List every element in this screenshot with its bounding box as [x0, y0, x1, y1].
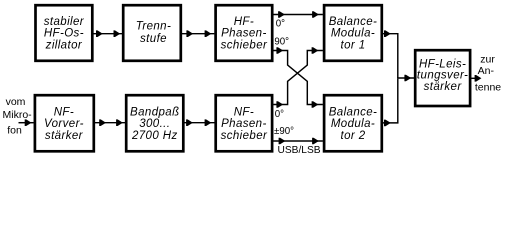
- wire buffer to HF phase shifter: [182, 33, 214, 35]
- box NF phase shifter: [216, 95, 272, 151]
- svg-text:Balance-: Balance-: [329, 106, 378, 118]
- wire bandpass to NF phase shifter: [185, 122, 215, 124]
- svg-text:0°: 0°: [275, 109, 284, 120]
- arrowhead: [312, 101, 319, 108]
- svg-text:Modula-: Modula-: [331, 118, 375, 130]
- arrowhead: [99, 119, 106, 126]
- wire modulator 1 output: [383, 34, 398, 78]
- svg-text:zur: zur: [480, 54, 495, 66]
- arrowhead: [312, 138, 319, 145]
- arrowhead: [186, 119, 193, 126]
- svg-text:Balance-: Balance-: [329, 16, 378, 28]
- label vom Mikrofon: [3, 96, 33, 137]
- arrowhead: [278, 11, 285, 18]
- arrowhead: [25, 119, 32, 126]
- label bandpass filter: [130, 106, 179, 141]
- svg-text:fon: fon: [7, 125, 22, 137]
- arrowhead: [114, 30, 121, 37]
- wire +-90deg NF output: [273, 140, 323, 142]
- wire 0deg NF output crossing up: [273, 51, 323, 105]
- label balance modulator 1: [329, 16, 378, 52]
- svg-text:HF-Os-: HF-Os-: [44, 28, 84, 40]
- svg-text:Phasen-: Phasen-: [221, 118, 267, 130]
- svg-text:Trenn-: Trenn-: [136, 20, 171, 32]
- box HF power amplifier: [415, 50, 470, 106]
- arrowhead: [96, 30, 103, 37]
- svg-text:2700 Hz: 2700 Hz: [131, 130, 178, 142]
- arrowhead: [276, 101, 283, 108]
- arrowhead: [279, 138, 286, 145]
- label HF power amplifier: [417, 58, 468, 93]
- wire junction to power amplifier: [397, 77, 414, 79]
- arrowhead: [475, 75, 482, 82]
- arrowhead: [312, 47, 319, 54]
- label balance modulator 2: [329, 106, 378, 141]
- box oscillator: [36, 5, 93, 61]
- box HF phase shifter: [216, 5, 273, 61]
- svg-text:Modula-: Modula-: [331, 28, 375, 40]
- svg-text:90°: 90°: [274, 37, 289, 48]
- label NF preamplifier: [44, 106, 84, 141]
- box buffer stage: [123, 5, 181, 61]
- svg-text:300...: 300...: [139, 118, 170, 130]
- svg-text:HF-: HF-: [234, 16, 254, 28]
- wire preamp to bandpass: [94, 122, 125, 124]
- svg-text:tenne: tenne: [475, 82, 501, 94]
- arrowhead: [276, 47, 283, 54]
- svg-text:An-: An-: [478, 65, 495, 77]
- wire 90deg HF output crossing down: [273, 51, 323, 105]
- wire microphone input: [19, 122, 34, 124]
- wire 0deg HF output: [273, 14, 323, 16]
- svg-text:tungsver-: tungsver-: [417, 70, 468, 82]
- svg-text:vom: vom: [6, 96, 26, 108]
- arrowhead: [205, 119, 212, 126]
- box NF preamplifier: [35, 95, 94, 151]
- svg-text:0°: 0°: [276, 19, 285, 30]
- arrowhead: [384, 30, 391, 37]
- arrowhead: [116, 119, 123, 126]
- svg-text:Mikro-: Mikro-: [3, 109, 33, 121]
- svg-text:±90°: ±90°: [274, 126, 294, 137]
- box balance modulator 1: [324, 5, 382, 61]
- wire oscillator to buffer: [94, 33, 123, 35]
- box bandpass filter: [126, 95, 183, 151]
- arrowhead: [404, 75, 411, 82]
- svg-text:stärker: stärker: [424, 81, 463, 93]
- arrowhead: [312, 11, 319, 18]
- wire modulator 2 output: [383, 79, 398, 123]
- svg-text:stabiler: stabiler: [44, 16, 85, 28]
- box balance modulator 2: [324, 95, 382, 151]
- label buffer stage: [136, 20, 171, 45]
- wire antenna output: [471, 77, 477, 79]
- svg-text:zillator: zillator: [45, 40, 83, 52]
- svg-text:NF-: NF-: [54, 106, 74, 118]
- arrowhead: [384, 120, 391, 127]
- label zur Antenne: [475, 54, 501, 94]
- svg-text:schieber: schieber: [221, 40, 268, 52]
- svg-text:stärker: stärker: [45, 130, 84, 142]
- label NF phase shifter: [221, 106, 268, 141]
- svg-text:NF-: NF-: [234, 106, 254, 118]
- svg-text:Bandpaß: Bandpaß: [130, 106, 179, 118]
- svg-text:tor 2: tor 2: [340, 130, 365, 142]
- label HF phase shifter: [221, 16, 268, 52]
- label oscillator: [44, 16, 85, 52]
- svg-text:HF-Leis-: HF-Leis-: [419, 58, 466, 70]
- svg-text:stufe: stufe: [140, 33, 167, 45]
- svg-text:Vorver-: Vorver-: [44, 118, 84, 130]
- arrowhead: [205, 30, 212, 37]
- svg-text:USB/LSB: USB/LSB: [278, 145, 321, 156]
- svg-text:tor 1: tor 1: [340, 40, 365, 52]
- svg-text:schieber: schieber: [221, 130, 268, 142]
- svg-text:Phasen-: Phasen-: [221, 28, 267, 40]
- arrowhead: [186, 30, 193, 37]
